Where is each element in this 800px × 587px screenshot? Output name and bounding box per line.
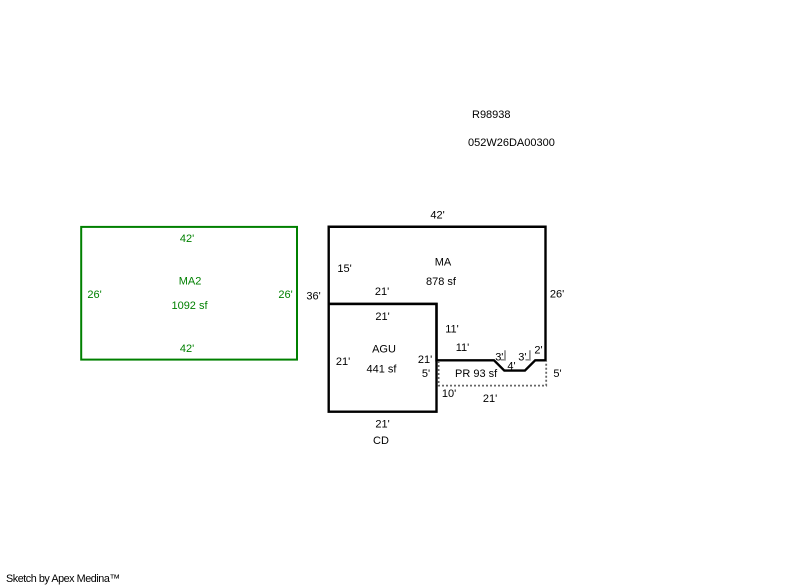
angle mark 1 (gray corner tick) (501, 350, 505, 360)
area MA outline (black polygon with notch) (329, 227, 546, 371)
svg-text:11': 11' (456, 342, 470, 354)
svg-text:5': 5' (422, 368, 430, 380)
area PR dotted boundary (439, 361, 547, 386)
svg-text:3': 3' (518, 351, 526, 363)
svg-text:PR 93 sf: PR 93 sf (455, 368, 498, 380)
svg-text:26': 26' (87, 289, 101, 301)
svg-text:10': 10' (442, 388, 456, 400)
svg-text:878 sf: 878 sf (426, 276, 457, 288)
svg-text:36': 36' (306, 291, 320, 303)
svg-text:21': 21' (375, 311, 389, 323)
svg-text:2': 2' (534, 345, 542, 357)
area MA2 outline (green rectangle) (81, 227, 297, 360)
svg-text:21': 21' (375, 419, 389, 431)
svg-text:11': 11' (445, 324, 459, 336)
svg-text:42': 42' (180, 233, 194, 245)
svg-text:21': 21' (483, 393, 497, 405)
svg-text:AGU: AGU (372, 344, 396, 356)
svg-text:CD: CD (373, 435, 389, 447)
svg-text:21': 21' (375, 286, 389, 298)
angle mark 2 (gray corner tick) (526, 350, 530, 360)
svg-text:R98938: R98938 (472, 109, 511, 121)
svg-text:Sketch by Apex Medina™: Sketch by Apex Medina™ (6, 573, 120, 585)
svg-text:1092 sf: 1092 sf (171, 300, 208, 312)
svg-text:42': 42' (180, 343, 194, 355)
area AGU outline (black rectangle) (329, 304, 437, 412)
svg-text:42': 42' (430, 210, 444, 222)
svg-text:3': 3' (495, 351, 503, 363)
svg-text:052W26DA00300: 052W26DA00300 (468, 137, 555, 149)
svg-text:21': 21' (418, 354, 432, 366)
svg-text:26': 26' (278, 289, 292, 301)
svg-text:MA2: MA2 (179, 276, 202, 288)
svg-text:21': 21' (336, 356, 350, 368)
svg-text:5': 5' (553, 368, 561, 380)
svg-text:4': 4' (507, 361, 515, 373)
svg-text:MA: MA (435, 257, 452, 269)
svg-text:26': 26' (550, 289, 564, 301)
svg-text:441 sf: 441 sf (367, 364, 398, 376)
svg-text:15': 15' (337, 263, 351, 275)
